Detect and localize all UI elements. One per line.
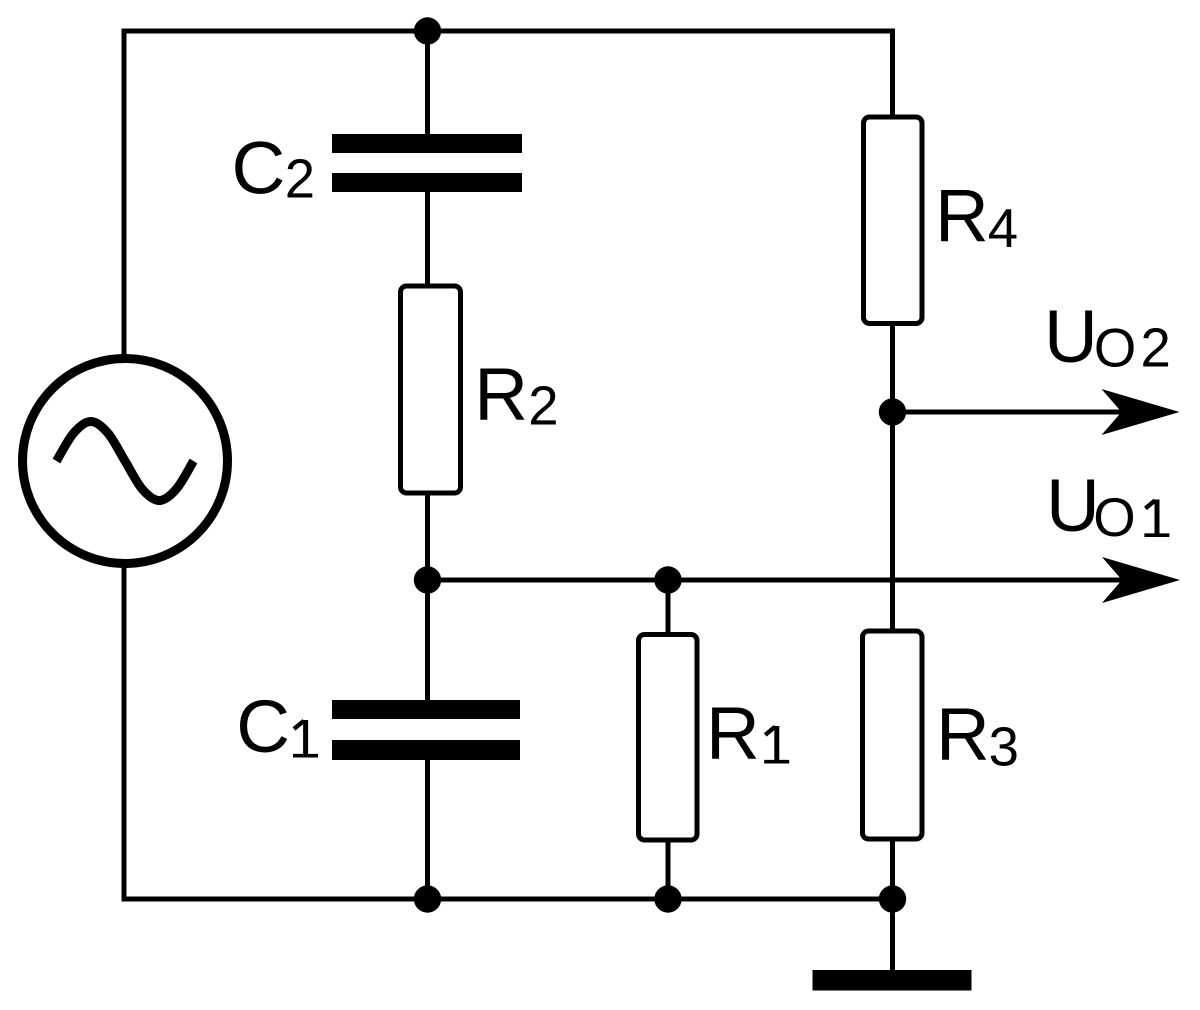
- svg-text:2: 2: [285, 149, 315, 210]
- wire C1 bottom plate to bottom rail: [425, 760, 430, 899]
- label UO2: [1044, 295, 1171, 378]
- svg-text:C: C: [232, 127, 286, 210]
- label UO1: [1046, 464, 1169, 548]
- wire node B to UO2 arrow: [893, 410, 1127, 415]
- resistor R3 label: [936, 693, 1019, 778]
- source V1 (AC sine source): [23, 359, 228, 564]
- svg-text:R: R: [936, 693, 990, 776]
- wire R2 bottom through node A to C1 top plate: [425, 496, 430, 701]
- svg-text:R: R: [706, 692, 760, 775]
- svg-text:2: 2: [1141, 317, 1171, 378]
- svg-text:R: R: [474, 353, 528, 436]
- wire R4 bottom to R3 top: [890, 326, 895, 629]
- wire C2 bottom plate to R2 top: [425, 192, 430, 284]
- wire node A to UO1 arrow: [428, 578, 1127, 583]
- resistor R1 label: [706, 692, 789, 775]
- wire bottom rail to ground: [890, 899, 895, 970]
- capacitor C1 label: [236, 685, 318, 768]
- svg-text:O: O: [1094, 317, 1136, 378]
- arrowhead UO1: [1102, 557, 1180, 603]
- node A (mid junction): [414, 566, 441, 593]
- wire node C to R1 top: [666, 580, 671, 632]
- resistor R4 label: [935, 174, 1018, 259]
- resistor R2: [401, 286, 461, 493]
- svg-text:4: 4: [988, 198, 1018, 259]
- svg-text:U: U: [1044, 295, 1098, 378]
- capacitor C1: [332, 700, 520, 760]
- svg-text:R: R: [935, 174, 989, 257]
- svg-text:U: U: [1046, 464, 1100, 547]
- resistor R2 label: [474, 353, 558, 437]
- svg-text:3: 3: [989, 717, 1019, 778]
- node bottom-left junction: [414, 885, 441, 912]
- wire R3 bottom to bottom rail: [890, 842, 895, 900]
- wire bottom loop: left riser, bottom rail: [124, 568, 893, 899]
- resistor R1: [639, 635, 698, 841]
- node C (R1 top junction): [654, 566, 681, 593]
- node B (UO2 junction): [879, 398, 906, 425]
- wire top loop: left riser, top rail, right riser: [124, 31, 893, 354]
- wire top node to C2 top plate: [425, 31, 430, 134]
- wire R1 bottom to bottom rail: [666, 843, 671, 900]
- svg-text:2: 2: [528, 376, 558, 437]
- node bottom-right junction: [879, 885, 906, 912]
- resistor R3: [863, 631, 923, 839]
- capacitor C2 label: [232, 127, 316, 210]
- node top junction: [414, 17, 441, 44]
- resistor R4: [864, 117, 923, 324]
- svg-text:O: O: [1093, 487, 1135, 548]
- svg-text:C: C: [236, 685, 290, 768]
- arrowhead UO2: [1102, 389, 1180, 435]
- ground: [813, 970, 972, 991]
- capacitor C2: [332, 134, 522, 192]
- node bottom-mid junction: [654, 885, 681, 912]
